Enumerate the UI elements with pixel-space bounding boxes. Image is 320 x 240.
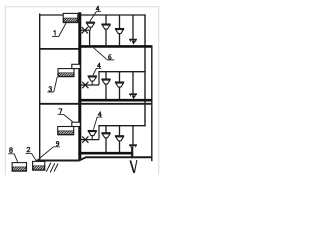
riser-to-branch link floor3: [98, 126, 100, 140]
slab floor1: [39, 48, 79, 50]
fuse line floor1: [81, 29, 90, 31]
socket column 2c: [129, 72, 137, 100]
lamp column 3b: [115, 126, 124, 153]
meter box A: [12, 163, 26, 172]
fuse line floor3: [81, 139, 99, 141]
ground line right: [86, 156, 153, 158]
ground step diagonal: [79, 157, 86, 160]
stub + lamp floor2: [88, 76, 97, 85]
branch line floor2: [98, 71, 145, 73]
lamp column 2b: [115, 72, 124, 100]
box 3: [58, 127, 74, 135]
fuse X floor2: [82, 82, 88, 88]
wall: [39, 14, 41, 161]
socket column 3c: [129, 126, 137, 148]
label 4 floor1: [90, 6, 101, 21]
right column A: [144, 14, 146, 126]
label 1: [52, 23, 66, 37]
stub + lamp on fuse branch floor1: [86, 22, 95, 46]
lamp column 3a: [101, 126, 110, 153]
ceiling line floor1: [39, 14, 146, 16]
label 4 floor3: [93, 112, 102, 130]
bus floor3: [78, 152, 132, 155]
label 2: [25, 147, 36, 161]
label 3: [47, 77, 57, 92]
lamp column 2a: [101, 72, 110, 100]
right column B: [151, 46, 153, 162]
meter box B: [33, 161, 45, 170]
box 1 (3F distribution box): [63, 13, 78, 22]
service entrance drop: [130, 147, 137, 174]
branch line floor3: [98, 125, 145, 127]
label 6: [94, 48, 115, 60]
fuse X floor3: [82, 136, 88, 142]
fuse X floor1: [82, 27, 88, 33]
lamp column 1b: [115, 15, 124, 46]
box 2: [58, 69, 74, 77]
ground line left: [36, 160, 79, 162]
slab floor2: [39, 103, 152, 105]
socket column 1c: [129, 15, 137, 45]
tap box floor3: [72, 122, 81, 126]
riser: [78, 12, 81, 160]
frame border: [5, 7, 159, 175]
lamp column 1a: [101, 15, 110, 46]
bus floor1: [78, 45, 152, 48]
label 4 floor2: [93, 63, 101, 75]
earth hatch: [46, 163, 58, 173]
label 7: [58, 109, 73, 122]
label 9: [37, 141, 60, 160]
stub + lamp floor3: [88, 131, 97, 140]
fuse line floor2: [81, 84, 99, 86]
label 8: [8, 148, 18, 163]
bus floor2: [78, 99, 152, 102]
riser-to-branch link floor2: [98, 72, 100, 85]
tap box floor2: [72, 64, 81, 68]
